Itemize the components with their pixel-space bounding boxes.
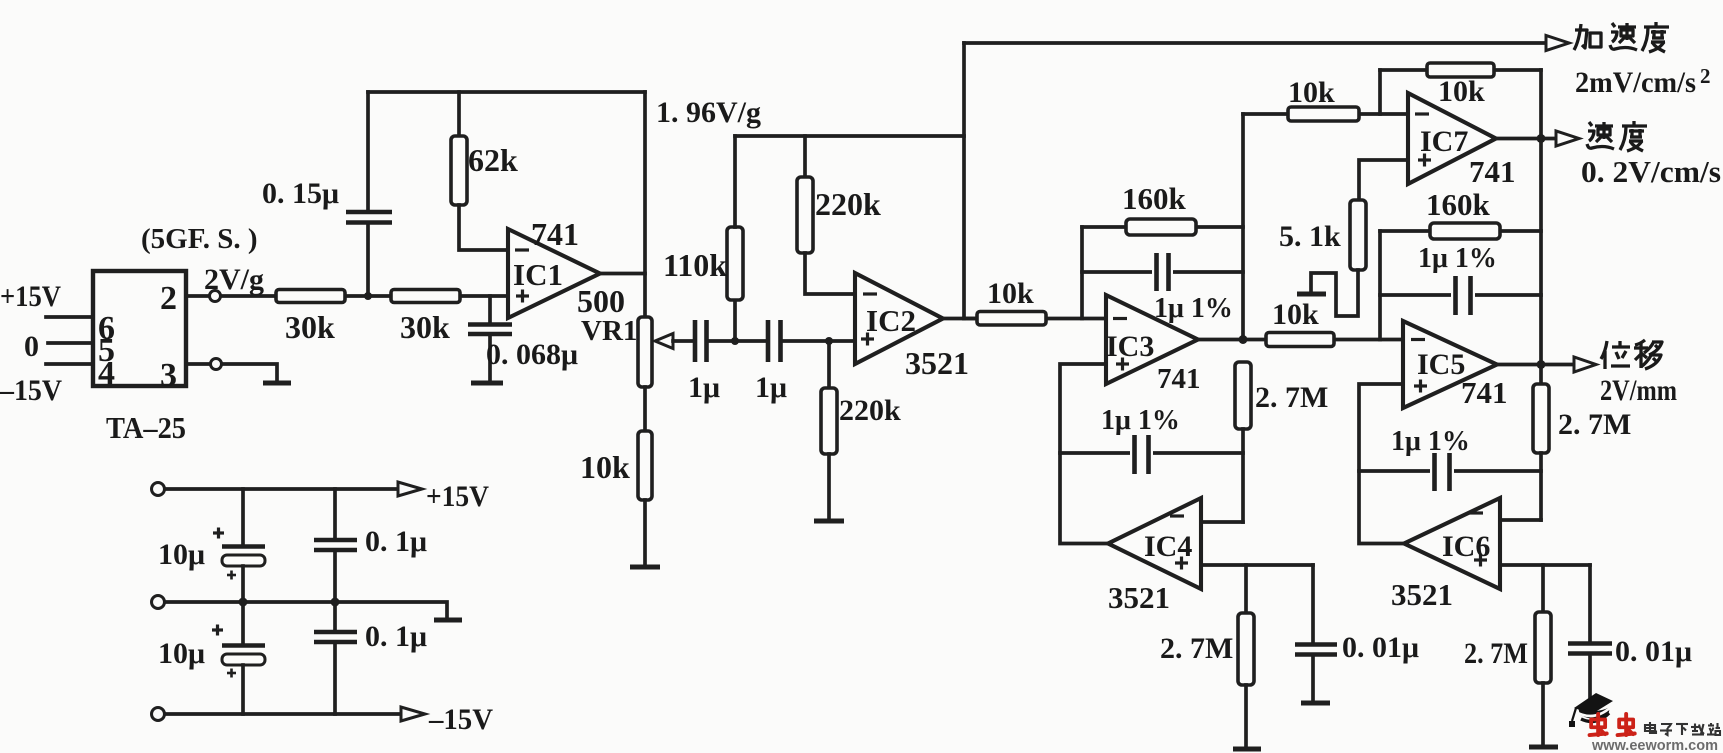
wire IC3 feedback left column [1080, 227, 1084, 319]
svg-text:0. 1μ: 0. 1μ [365, 525, 427, 558]
arrow +15V [398, 482, 422, 496]
svg-text:1μ 1%: 1μ 1% [1418, 243, 1497, 274]
svg-text:160k: 160k [1122, 181, 1187, 216]
capacitor 1u first [688, 320, 720, 404]
capacitor 0.01u IC4 [1295, 565, 1419, 701]
watermark logo graduation cap [1569, 693, 1613, 727]
wire IC1 output column [643, 92, 647, 317]
svg-text:10k: 10k [1438, 75, 1485, 108]
svg-text:1. 96V/g: 1. 96V/g [656, 96, 761, 129]
svg-text:2V/mm: 2V/mm [1600, 374, 1677, 407]
svg-text:741: 741 [1157, 363, 1201, 395]
capacitor 1u 1% IC6 loop [1359, 426, 1541, 491]
terminal pin2 [210, 291, 221, 302]
wire between 1u caps [708, 339, 767, 343]
arrow acceleration output [1546, 36, 1569, 51]
svg-text:0. 2V/cm/s: 0. 2V/cm/s [1581, 154, 1721, 189]
svg-text:1μ 1%: 1μ 1% [1101, 405, 1180, 436]
resistor 220k to ground [821, 341, 901, 519]
wire to IC4 minus [1203, 520, 1243, 524]
svg-text:VR1: VR1 [581, 315, 637, 347]
wire pin4 lead [46, 362, 93, 366]
wire right feedback column [1539, 70, 1543, 384]
terminal -15V rail [152, 708, 165, 721]
svg-text:10k: 10k [1288, 76, 1335, 109]
resistor 30k second [391, 290, 508, 346]
node IC7 output junction [1537, 134, 1546, 143]
node junction 110k tap [731, 337, 739, 345]
svg-text:0. 01μ: 0. 01μ [1342, 631, 1419, 664]
wire IC6 output loop to IC5 plus [1359, 384, 1404, 544]
wire IC3 output [1198, 338, 1243, 342]
resistor 10k IC7 feedback [1380, 63, 1541, 108]
svg-text:(5GF. S. ): (5GF. S. ) [141, 223, 258, 255]
wire +15V rail [165, 487, 398, 491]
ground 2.7M IC6 [1529, 745, 1558, 750]
ground 0.068u [471, 381, 503, 386]
sensor block TA-25 [93, 271, 186, 394]
svg-text:–15V: –15V [0, 374, 62, 407]
svg-text:2mV/cm/s: 2mV/cm/s [1575, 66, 1696, 99]
label velocity 速度 [1587, 121, 1647, 151]
svg-text:10k: 10k [987, 277, 1034, 310]
svg-text:IC5: IC5 [1417, 348, 1465, 381]
node junction 30k/30k/0.15u [364, 292, 372, 300]
terminal 0V rail [152, 596, 165, 609]
ground below 220k [814, 519, 844, 524]
ground pin3 [263, 381, 291, 386]
node junction 220k bottom tap [825, 337, 833, 345]
op-amp IC6 3521 [1391, 498, 1500, 612]
svg-text:IC4: IC4 [1144, 530, 1192, 563]
svg-text:www.eeworm.com: www.eeworm.com [1591, 737, 1718, 753]
wire IC2 output to acceleration line [962, 43, 966, 319]
resistor 10k IC3 to IC7 [1243, 76, 1408, 121]
svg-text:0. 068μ: 0. 068μ [486, 338, 578, 371]
wire -15V rail [165, 712, 401, 716]
svg-text:1μ 1%: 1μ 1% [1391, 426, 1470, 457]
svg-text:220k: 220k [815, 186, 881, 222]
wire pin3 lead [186, 362, 210, 366]
node IC3 output junction [1239, 335, 1248, 344]
terminal pin3 [211, 359, 222, 370]
svg-text:2: 2 [160, 280, 177, 317]
wire pin6 lead [46, 315, 93, 319]
svg-text:4: 4 [98, 355, 115, 392]
label acceleration 加速度 [1574, 22, 1669, 52]
op-amp IC1 741 [508, 216, 600, 318]
capacitor 0.01u IC6 [1568, 565, 1692, 698]
arrow displacement output [1574, 357, 1596, 372]
svg-text:1μ: 1μ [688, 371, 720, 404]
svg-text:2. 7M: 2. 7M [1558, 408, 1631, 441]
watermark 虫虫 red [1590, 714, 1635, 735]
svg-text:+15V: +15V [0, 280, 61, 313]
capacitor 1u second [755, 320, 787, 404]
wire pin3 to ground [222, 364, 277, 381]
resistor 220k feedback [797, 136, 881, 294]
svg-text:3: 3 [160, 357, 177, 394]
wire IC5 output [1497, 363, 1574, 367]
svg-text:10μ: 10μ [158, 538, 205, 571]
wire IC3 output column up [1241, 114, 1245, 340]
ground below 10k [630, 565, 660, 570]
arrow velocity output [1556, 131, 1579, 146]
resistor 5.1k IC7 plus [1279, 160, 1408, 316]
resistor 10k IC2 to IC3 [964, 277, 1106, 325]
wire 0V rail [165, 602, 447, 618]
potentiometer VR1 500 [577, 283, 673, 387]
op-amp IC7 741 [1408, 93, 1516, 189]
arrow -15V [401, 707, 425, 721]
wire acceleration output line [964, 41, 1547, 45]
svg-text:10k: 10k [580, 449, 630, 485]
svg-text:3521: 3521 [905, 345, 969, 381]
node IC5 output junction [1537, 360, 1546, 369]
svg-text:220k: 220k [839, 394, 901, 427]
ground 0.01u IC4 [1301, 701, 1330, 706]
capacitor 10u upper electrolytic [158, 489, 265, 602]
capacitor 1u 1% IC4 loop [1060, 405, 1243, 474]
wire IC7 minus node up [1378, 70, 1382, 114]
wire IC2 output [943, 317, 977, 321]
resistor 160k IC3 feedback [1082, 181, 1243, 235]
svg-text:IC6: IC6 [1442, 530, 1490, 563]
resistor 10k IC3 to IC5 [1243, 298, 1403, 347]
wire IC7 output [1496, 137, 1556, 141]
svg-text:0: 0 [24, 330, 39, 363]
wire feedback 1.96V/g [735, 134, 964, 138]
svg-text:110k: 110k [663, 247, 727, 283]
svg-text:30k: 30k [285, 309, 335, 345]
wire pin2 lead [186, 294, 209, 298]
node 0V right junction [331, 598, 340, 607]
resistor 62k [451, 92, 518, 250]
capacitor 10u lower electrolytic [158, 602, 265, 714]
op-amp IC3 741 [1106, 295, 1201, 395]
svg-text:0. 1μ: 0. 1μ [365, 620, 427, 653]
svg-text:IC3: IC3 [1106, 330, 1154, 363]
wire pin2 to R 30k [221, 294, 276, 298]
svg-text:0. 01μ: 0. 01μ [1615, 635, 1692, 668]
watermark 电子下载站 [1645, 722, 1720, 735]
op-amp IC4 3521 [1108, 498, 1201, 615]
svg-text:2. 7M: 2. 7M [1160, 632, 1233, 665]
wire IC5 feedback left column [1378, 231, 1382, 340]
svg-text:TA–25: TA–25 [106, 410, 186, 445]
svg-text:10k: 10k [1272, 298, 1319, 331]
svg-text:30k: 30k [400, 309, 450, 345]
wire IC1 output [600, 272, 645, 276]
wire pin5 lead [48, 341, 93, 345]
svg-text:IC1: IC1 [513, 257, 563, 292]
svg-text:+15V: +15V [426, 480, 489, 513]
ground 2.7M IC4 [1233, 747, 1261, 752]
op-amp IC5 741 [1403, 321, 1508, 410]
label displacement 位移 [1601, 340, 1662, 369]
svg-text:10μ: 10μ [158, 637, 205, 670]
resistor 160k IC5 feedback [1380, 187, 1541, 239]
terminal +15V rail [152, 483, 165, 496]
svg-text:0. 15μ: 0. 15μ [262, 177, 339, 210]
svg-text:2. 7M: 2. 7M [1464, 637, 1528, 670]
resistor 2.7M IC3 output down [1235, 362, 1328, 522]
svg-text:2V/g: 2V/g [204, 263, 264, 296]
wire IC6 plus [1502, 563, 1590, 567]
resistor 110k [663, 136, 743, 341]
svg-text:1μ 1%: 1μ 1% [1154, 293, 1233, 324]
svg-text:IC7: IC7 [1420, 125, 1468, 158]
wire IC1 feedback top [368, 90, 645, 94]
svg-text:2. 7M: 2. 7M [1255, 381, 1328, 414]
capacitor 1u 1% IC3 feedback [1082, 253, 1243, 324]
svg-text:500: 500 [577, 283, 625, 319]
capacitor 0.15u [262, 92, 392, 296]
svg-text:741: 741 [531, 216, 579, 252]
capacitor 0.1u upper [314, 489, 427, 602]
svg-text:160k: 160k [1426, 187, 1491, 222]
resistor 10k below VR1 [580, 387, 652, 565]
wire to IC6 minus [1502, 518, 1541, 522]
wire cap to IC2 plus [782, 339, 855, 343]
svg-text:741: 741 [1469, 154, 1516, 189]
resistor 2.7M IC4 plus to ground [1160, 565, 1254, 747]
resistor 30k first [276, 290, 391, 346]
svg-text:1μ: 1μ [755, 371, 787, 404]
svg-text:–15V: –15V [428, 703, 493, 736]
wire VR1 wiper to caps [673, 339, 694, 343]
svg-text:741: 741 [1461, 375, 1508, 410]
capacitor 1u 1% IC5 feedback [1380, 243, 1541, 315]
svg-text:3521: 3521 [1108, 580, 1170, 615]
svg-text:5. 1k: 5. 1k [1279, 220, 1341, 253]
op-amp IC2 3521 [855, 273, 969, 381]
svg-text:3521: 3521 [1391, 577, 1453, 612]
wire IC4 output loop to IC3 plus [1060, 364, 1108, 544]
capacitor 0.068u [468, 296, 578, 381]
ground 0V rail [434, 618, 462, 623]
wire IC4 plus [1203, 563, 1313, 567]
svg-text:62k: 62k [468, 142, 518, 178]
svg-text:2: 2 [1700, 64, 1711, 88]
svg-text:IC2: IC2 [866, 303, 916, 338]
ground 5.1k [1297, 292, 1326, 297]
resistor 2.7M IC6 plus to ground [1464, 565, 1551, 745]
resistor 2.7M IC5 output down [1533, 384, 1631, 520]
capacitor 0.1u lower [314, 602, 427, 714]
node 0V left junction [239, 598, 248, 607]
